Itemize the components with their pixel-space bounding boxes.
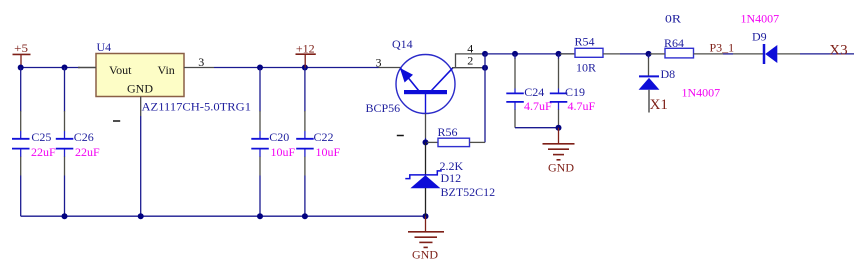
- resistor R54: [560, 35, 649, 75]
- svg-text:P3_1: P3_1: [710, 41, 735, 55]
- svg-text:GND: GND: [548, 161, 574, 175]
- wire pin3 to +12 rail: [214, 67, 379, 69]
- svg-text:4.7uF: 4.7uF: [524, 99, 552, 113]
- svg-text:GND: GND: [127, 82, 153, 96]
- transistor Q14 body: [366, 55, 456, 116]
- node junction D8: [646, 51, 652, 57]
- pin U4 Vin (pin 3): [184, 55, 214, 69]
- svg-text:10uF: 10uF: [271, 145, 296, 159]
- diode D12 zener: [405, 171, 495, 199]
- ground GND (bottom): [408, 216, 444, 261]
- svg-text:U4: U4: [97, 40, 112, 54]
- svg-text:AZ1117CH-5.0TRG1: AZ1117CH-5.0TRG1: [142, 100, 252, 114]
- svg-text:C22: C22: [314, 130, 334, 144]
- svg-text:D8: D8: [661, 67, 676, 81]
- svg-text:10R: 10R: [576, 61, 596, 75]
- node junction pin4: [482, 51, 488, 57]
- resistor R64: [650, 11, 733, 58]
- svg-text:3: 3: [376, 56, 382, 70]
- diode D9: [733, 12, 779, 65]
- regulator U4: [96, 40, 251, 114]
- wire collector vertical: [484, 54, 486, 142]
- svg-text:D9: D9: [752, 30, 767, 44]
- svg-text:4.7uF: 4.7uF: [568, 99, 596, 113]
- ground GND (caps): [543, 128, 575, 175]
- svg-text:C20: C20: [269, 130, 289, 144]
- wire bottom rail: [21, 215, 426, 217]
- svg-text:C25: C25: [31, 130, 51, 144]
- svg-text:GND: GND: [412, 248, 438, 262]
- node junction R56 left: [423, 139, 429, 145]
- node bottom U4 GND: [138, 213, 144, 219]
- svg-text:BZT52C12: BZT52C12: [441, 185, 496, 199]
- svg-text:+5: +5: [14, 41, 28, 55]
- wire C19 vertical: [558, 54, 560, 128]
- svg-text:Q14: Q14: [392, 37, 413, 51]
- wire R56 node down to D12: [425, 142, 427, 175]
- svg-text:22uF: 22uF: [31, 145, 56, 159]
- node junction GND2: [556, 125, 562, 131]
- diode D8: [639, 67, 721, 113]
- node junction +5/C25: [18, 65, 24, 71]
- svg-text:R54: R54: [575, 35, 595, 49]
- wire C22 vertical: [304, 68, 306, 217]
- svg-text:2: 2: [467, 54, 473, 68]
- capacitor C26: [56, 130, 100, 159]
- node junction C26: [62, 65, 68, 71]
- node junction +12/C22: [302, 65, 308, 71]
- svg-text:10uF: 10uF: [316, 145, 341, 159]
- wire D12 to bottom rail: [425, 188, 427, 216]
- svg-text:R64: R64: [664, 36, 684, 50]
- node bottom D12: [423, 213, 429, 219]
- svg-text:22uF: 22uF: [75, 145, 100, 159]
- wire D9 to X3: [777, 53, 800, 55]
- wire C20 vertical: [259, 68, 261, 217]
- capacitor C22: [296, 130, 340, 159]
- svg-text:0R: 0R: [665, 11, 681, 25]
- svg-text:4: 4: [467, 42, 473, 56]
- svg-text:3: 3: [198, 55, 204, 69]
- svg-text:R56: R56: [438, 125, 458, 139]
- svg-text:X1: X1: [650, 97, 668, 113]
- pin U4 GND (pin 1): [113, 97, 141, 122]
- wire U4 GND down to bottom rail: [140, 116, 142, 216]
- svg-text:Vin: Vin: [158, 63, 175, 77]
- svg-text:X3: X3: [829, 42, 847, 58]
- node bottom C22: [302, 213, 308, 219]
- svg-text:C26: C26: [74, 130, 94, 144]
- pin Q14 base (pin 1): [397, 114, 426, 139]
- capacitor C20: [251, 130, 295, 159]
- capacitor C24: [506, 85, 552, 113]
- node junction C24: [512, 51, 518, 57]
- wire D8 vertical: [648, 54, 650, 59]
- power +5: [13, 41, 31, 68]
- svg-text:C19: C19: [565, 85, 585, 99]
- svg-text:BCP56: BCP56: [366, 101, 401, 115]
- wire C25 vertical: [20, 68, 22, 217]
- pin Q14 collector tab (pin 4): [456, 42, 486, 68]
- pin Q14 collector (pin 2): [452, 54, 485, 68]
- capacitor C25: [12, 130, 56, 159]
- pin U4 Vout (pin 2): [78, 67, 96, 69]
- wire C26 vertical: [64, 68, 66, 217]
- resistor R56: [427, 125, 485, 173]
- power +12: [296, 42, 316, 68]
- wire caps bottom: [515, 127, 559, 129]
- pin Q14 emitter (pin 3): [376, 56, 401, 70]
- node junction C20: [257, 65, 263, 71]
- capacitor C19: [550, 85, 596, 113]
- svg-text:1N4007: 1N4007: [741, 12, 780, 26]
- wire top-left rail: [21, 67, 80, 69]
- wire top right rail: [485, 53, 575, 55]
- svg-text:C24: C24: [524, 85, 544, 99]
- svg-text:1N4007: 1N4007: [682, 86, 721, 100]
- node bottom C20: [257, 213, 263, 219]
- svg-text:Vout: Vout: [109, 63, 132, 77]
- node bottom C26: [62, 213, 68, 219]
- node junction C19/R54: [556, 51, 562, 57]
- wire Q14 base to R56 node: [425, 138, 427, 142]
- svg-text:D12: D12: [441, 171, 462, 185]
- node junction pin2: [482, 65, 488, 71]
- wire C24 vertical: [514, 54, 516, 128]
